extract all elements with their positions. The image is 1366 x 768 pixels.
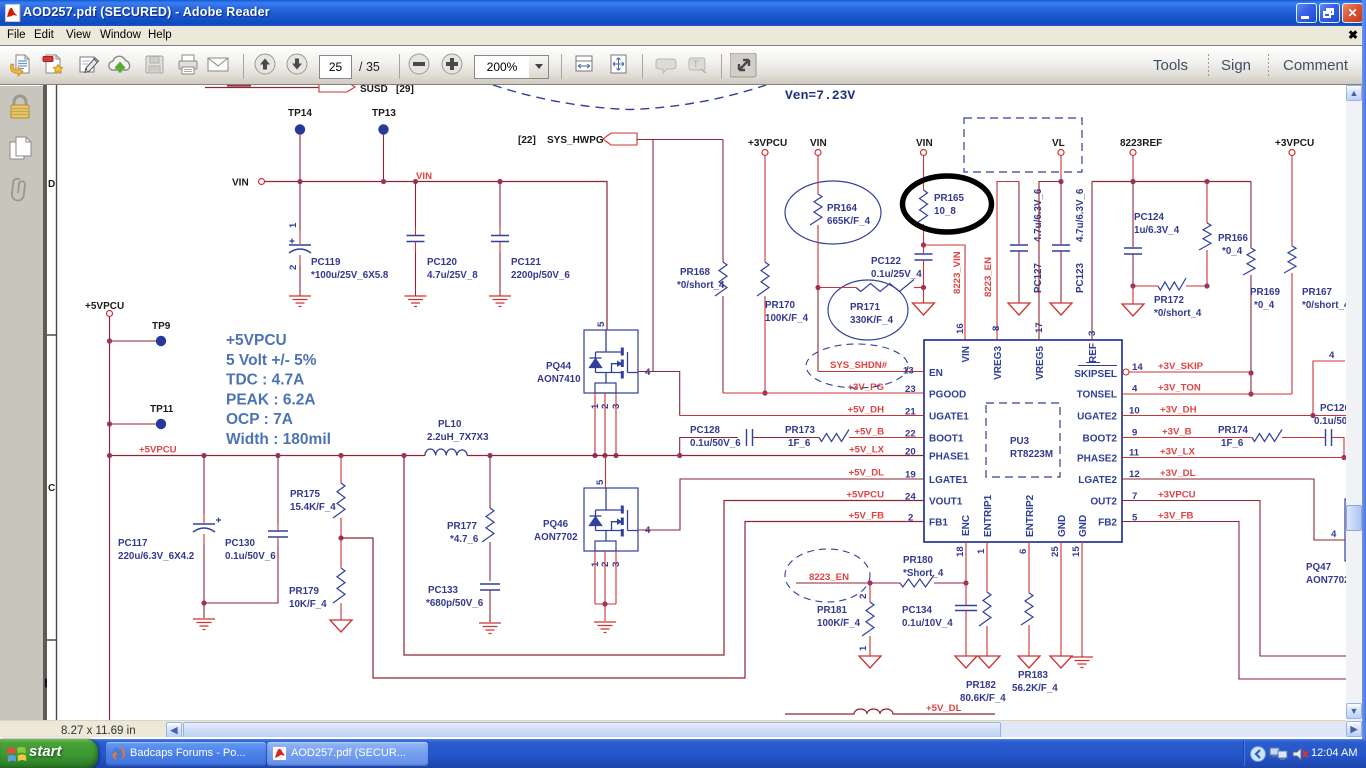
svg-text:1: 1 — [976, 548, 987, 554]
ground pin25 — [1050, 656, 1072, 668]
svg-text:PC121: PC121 — [511, 257, 542, 268]
toolbar icon page up — [286, 53, 312, 84]
toolbar icon sign pen — [108, 53, 134, 84]
dashed annotation arc — [493, 85, 766, 110]
svg-text:*4.7_6: *4.7_6 — [450, 534, 479, 545]
svg-text:UGATE1: UGATE1 — [929, 412, 969, 423]
svg-text:5 Volt +/- 5%: 5 Volt +/- 5% — [226, 352, 317, 369]
junction — [297, 179, 302, 184]
transistor PQ47 — [1345, 499, 1366, 561]
resistor PR177 — [489, 456, 491, 509]
wire VREG5 to VL — [1039, 182, 1061, 341]
svg-text:4: 4 — [1331, 529, 1337, 540]
junction — [921, 285, 926, 290]
ground PC124 — [1122, 304, 1144, 316]
clipped net label above toolbar — [227, 85, 251, 87]
junction — [497, 179, 502, 184]
wire +3V_FB route — [1122, 522, 1366, 680]
dashed ellipse SYS_SHDN — [806, 344, 908, 388]
svg-text:*0/short_4: *0/short_4 — [1302, 300, 1350, 311]
wire PC128 to PR173 — [753, 437, 819, 439]
wire +5V_LX node to PHASE1 — [467, 455, 924, 457]
wire PQ46 drain — [605, 456, 607, 489]
wire TP13 — [383, 134, 385, 182]
svg-text:T: T — [693, 59, 699, 69]
resistor PR165 — [923, 156, 925, 191]
svg-text:PHASE1: PHASE1 — [929, 452, 969, 463]
wire +5VPCU rail — [110, 455, 426, 457]
svg-text:PR179: PR179 — [289, 586, 320, 597]
capacitor PC130 — [277, 456, 279, 524]
svg-text:OCP : 7A: OCP : 7A — [226, 411, 293, 428]
svg-text:+5VPCU: +5VPCU — [226, 332, 287, 349]
wire VIN rail to PQ44 drain — [265, 182, 608, 331]
wire VL stub — [1060, 156, 1062, 182]
svg-text:GND: GND — [1057, 515, 1068, 537]
zoom box — [474, 55, 530, 79]
svg-text:2: 2 — [908, 513, 913, 524]
svg-text:PC128: PC128 — [690, 425, 721, 436]
ground PQ46 — [594, 622, 616, 633]
junction — [107, 421, 112, 426]
svg-text:4: 4 — [1132, 384, 1138, 395]
svg-text:+5V_B: +5V_B — [854, 427, 884, 438]
svg-text:[22]: [22] — [518, 135, 536, 146]
svg-text:25: 25 — [1050, 546, 1061, 557]
junction — [1058, 179, 1063, 184]
svg-text:100K/F_4: 100K/F_4 — [765, 313, 809, 324]
junction — [1341, 455, 1346, 460]
svg-text:VIN: VIN — [961, 346, 972, 363]
svg-text:VL: VL — [1052, 138, 1065, 149]
wire +5VPCU to VOUT1 — [404, 456, 924, 656]
vertical scrollbar — [1346, 85, 1362, 720]
svg-text:FB2: FB2 — [1098, 518, 1117, 529]
wire SUSD net — [205, 87, 319, 89]
svg-text:+5VPCU: +5VPCU — [846, 490, 884, 501]
svg-text:VREG3: VREG3 — [993, 346, 1004, 380]
wire +5V_DL bottom — [785, 709, 995, 714]
svg-text:+3VPCU: +3VPCU — [748, 138, 787, 149]
ground PC127 — [1008, 303, 1030, 315]
svg-text:PC123: PC123 — [1075, 262, 1086, 293]
svg-text:0.1u/25V_4: 0.1u/25V_4 — [871, 269, 922, 280]
svg-text:PR177: PR177 — [447, 521, 478, 532]
svg-text:+3V_DH: +3V_DH — [1160, 405, 1197, 416]
junction — [1248, 370, 1253, 375]
junction — [762, 390, 767, 395]
capacitor PC127 — [1018, 182, 1020, 245]
junction — [1310, 413, 1315, 418]
svg-text:RT8223M: RT8223M — [1010, 449, 1053, 460]
wire PQ46 gate to LGATE1 row — [638, 479, 924, 530]
svg-text:15.4K/F_4: 15.4K/F_4 — [290, 502, 336, 513]
svg-text:VOUT1: VOUT1 — [929, 497, 963, 508]
IC PU3 RT8223M — [924, 340, 1122, 542]
ground PC119 — [289, 296, 311, 307]
wire PQ44 gate to UGATE1 row — [638, 372, 680, 416]
svg-text:PC120: PC120 — [427, 257, 458, 268]
resistor PR179 — [340, 538, 342, 568]
svg-text:1: 1 — [858, 645, 869, 651]
resistor PR173 — [819, 430, 849, 442]
capacitor PC128 — [747, 429, 753, 446]
svg-text:14: 14 — [1132, 362, 1143, 373]
capacitor PC126 — [1326, 429, 1332, 446]
svg-text:PQ44: PQ44 — [546, 361, 572, 372]
ellipse around PR171 — [828, 280, 908, 340]
svg-text:5: 5 — [596, 321, 607, 327]
svg-text:2: 2 — [858, 594, 869, 599]
junction — [107, 338, 112, 343]
page number box — [319, 55, 352, 79]
svg-text:SUSD: SUSD — [360, 85, 388, 95]
svg-text:3: 3 — [1087, 331, 1098, 336]
svg-text:PGOOD: PGOOD — [929, 390, 966, 401]
junction — [338, 453, 343, 458]
svg-text:1F_6: 1F_6 — [1221, 438, 1244, 449]
svg-text:1: 1 — [288, 222, 299, 228]
junction — [1130, 283, 1135, 288]
svg-text:PR182: PR182 — [966, 680, 997, 691]
svg-text:+3V_DL: +3V_DL — [1160, 468, 1196, 479]
svg-text:0.1u/10V_4: 0.1u/10V_4 — [902, 618, 953, 629]
node VL — [1052, 138, 1065, 156]
junction — [413, 179, 418, 184]
svg-text:LGATE1: LGATE1 — [929, 475, 968, 486]
ground PC122 — [913, 303, 935, 315]
svg-text:8223_VIN: 8223_VIN — [952, 251, 963, 294]
ground PC123 — [1050, 303, 1072, 315]
svg-text:80.6K/F_4: 80.6K/F_4 — [960, 693, 1006, 704]
resistor PR169 — [1250, 182, 1252, 249]
resistor PR172 — [1133, 285, 1158, 287]
resistor PR180 — [900, 575, 934, 587]
junction — [487, 453, 492, 458]
svg-text:PC134: PC134 — [902, 605, 933, 616]
resistor PR171 — [818, 287, 856, 289]
wire PR180 to ENC — [934, 582, 966, 584]
junction — [867, 580, 872, 585]
resistor PR183 — [1021, 593, 1033, 625]
svg-text:+5V_LX: +5V_LX — [849, 445, 885, 456]
svg-text:17: 17 — [1034, 322, 1045, 333]
svg-text:PR172: PR172 — [1154, 295, 1185, 306]
toolbar icon print — [205, 53, 231, 84]
wire 8223REF stub — [1132, 156, 1134, 182]
svg-text:PC119: PC119 — [311, 257, 341, 268]
ground PR179 — [330, 620, 352, 632]
wire REF column — [1091, 182, 1093, 341]
svg-text:+3V_FB: +3V_FB — [1158, 511, 1194, 522]
wire PQ46 source pins — [595, 551, 616, 604]
wire to SYS_SHDN row — [817, 288, 819, 372]
wire TP9 — [110, 340, 157, 342]
wire GND pin 15 — [1081, 542, 1083, 657]
svg-text:TP11: TP11 — [150, 404, 174, 415]
svg-text:*0_4: *0_4 — [1254, 300, 1275, 311]
wire REF rail — [1092, 181, 1251, 183]
junction — [201, 453, 206, 458]
svg-text:REF: REF — [1088, 343, 1099, 363]
resistor PR168 — [722, 140, 724, 263]
resistor PR164 — [817, 156, 819, 195]
svg-text:ENC: ENC — [961, 515, 972, 536]
svg-text:PR181: PR181 — [817, 605, 848, 616]
svg-text:SYS_HWPG: SYS_HWPG — [547, 135, 604, 146]
svg-text:10: 10 — [1129, 406, 1140, 417]
wire +3V_TON row — [1122, 393, 1292, 395]
node VIN mid — [810, 138, 827, 156]
wire PC126 down — [1332, 438, 1344, 458]
svg-text:PEAK : 6.2A: PEAK : 6.2A — [226, 391, 316, 408]
svg-text:+5VPCU: +5VPCU — [139, 445, 177, 456]
wire ENTRIP1 pin 1 — [986, 542, 988, 592]
wire PQ46 to ground — [604, 604, 606, 621]
menu bar — [0, 26, 1366, 46]
wire LX to PC128 — [680, 438, 738, 456]
junction — [107, 453, 112, 458]
svg-text:8223_EN: 8223_EN — [809, 572, 849, 583]
svg-text:TP13: TP13 — [372, 108, 396, 119]
junction — [338, 535, 343, 540]
svg-text:PR175: PR175 — [290, 489, 321, 500]
wire PR173 to BOOT1 — [849, 437, 924, 439]
resistor PR181 — [869, 583, 871, 602]
svg-text:19: 19 — [905, 470, 916, 481]
svg-text:SYS_SHDN#: SYS_SHDN# — [830, 360, 888, 371]
junction — [677, 453, 682, 458]
svg-text:24: 24 — [905, 492, 916, 503]
svg-text:TP14: TP14 — [288, 108, 312, 119]
ground PC120 — [405, 296, 427, 307]
svg-text:12: 12 — [1129, 469, 1140, 480]
svg-text:4.7u/25V_8: 4.7u/25V_8 — [427, 270, 478, 281]
node +3VPCU left — [748, 138, 787, 156]
junction — [275, 453, 280, 458]
junction — [602, 601, 607, 606]
svg-text:BOOT2: BOOT2 — [1083, 434, 1118, 445]
wire +3V_PG row to PGOOD — [723, 392, 924, 394]
svg-text:VIN: VIN — [416, 171, 432, 182]
svg-text:*100u/25V_6X5.8: *100u/25V_6X5.8 — [311, 270, 389, 281]
svg-text:2200p/50V_6: 2200p/50V_6 — [511, 270, 570, 281]
wire GND pin 25 — [1060, 542, 1062, 656]
node VIN right — [916, 138, 933, 156]
wire SYS_HWPG — [637, 139, 723, 141]
wire +3V_DH row — [1122, 361, 1346, 416]
svg-text:OUT2: OUT2 — [1090, 497, 1117, 508]
junction — [381, 179, 386, 184]
junction — [613, 453, 618, 458]
dashed ellipse 8223_EN — [785, 549, 870, 602]
svg-text:PR165: PR165 — [934, 193, 965, 204]
svg-text:+3V_B: +3V_B — [1162, 427, 1192, 438]
svg-text:+3V_LX: +3V_LX — [1160, 447, 1196, 458]
ellipse around PR164 — [785, 181, 881, 244]
svg-text:PC124: PC124 — [1134, 212, 1165, 223]
svg-text:4: 4 — [645, 367, 651, 378]
paperclip icon — [6, 176, 32, 204]
wire +3V_DL row to PQ47 — [1122, 479, 1345, 540]
svg-text:VIN: VIN — [810, 138, 827, 149]
capacitor PC121 — [499, 182, 501, 228]
svg-text:TONSEL: TONSEL — [1077, 390, 1117, 401]
window title bar — [0, 0, 1366, 26]
svg-text:PR167: PR167 — [1302, 287, 1333, 298]
svg-text:20: 20 — [905, 447, 916, 458]
junction — [401, 453, 406, 458]
svg-text:+3VPCU: +3VPCU — [1158, 490, 1196, 501]
wire +3V_SKIP row — [1129, 371, 1251, 373]
svg-text:8: 8 — [991, 325, 1002, 331]
svg-text:AON7702: AON7702 — [1306, 575, 1350, 586]
inductor PL10 — [425, 449, 467, 456]
document background — [48, 85, 1346, 720]
svg-text:*0_4: *0_4 — [1222, 246, 1243, 257]
svg-text:*0/short_4: *0/short_4 — [1154, 308, 1202, 319]
capacitor PC117 — [203, 456, 205, 515]
svg-text:0.1u/50V_6: 0.1u/50V_6 — [690, 438, 741, 449]
ground PR182 — [978, 656, 1000, 668]
svg-text:*0/short_4: *0/short_4 — [677, 280, 725, 291]
svg-text:330K/F_4: 330K/F_4 — [850, 315, 894, 326]
svg-text:4.7u/6.3V_6: 4.7u/6.3V_6 — [1075, 188, 1086, 242]
svg-text:TP9: TP9 — [152, 321, 171, 332]
svg-text:Ven=7.23V: Ven=7.23V — [785, 88, 855, 103]
node VIN — [232, 178, 265, 189]
toolbar icon fit page — [642, 54, 643, 79]
svg-text:PC122: PC122 — [871, 256, 902, 267]
resistor PR167 — [1291, 156, 1293, 247]
svg-text:PR164: PR164 — [827, 203, 858, 214]
toolbar icon save (disabled) — [175, 53, 201, 84]
svg-text:BOOT1: BOOT1 — [929, 434, 964, 445]
svg-text:+5V_DL: +5V_DL — [849, 468, 885, 479]
svg-text:*Short_4: *Short_4 — [903, 568, 944, 579]
node +5VPCU — [85, 301, 124, 317]
capacitor PC124 — [1132, 182, 1134, 248]
ground PC134 — [955, 656, 977, 668]
svg-text:18: 18 — [955, 546, 966, 557]
svg-text:1u/6.3V_4: 1u/6.3V_4 — [1134, 225, 1180, 236]
wire feedback divider to FB1 — [341, 522, 924, 679]
wire PR174 to PC126 — [1282, 437, 1325, 439]
transistor PQ46 — [584, 488, 638, 551]
svg-text:10K/F_4: 10K/F_4 — [289, 599, 327, 610]
svg-text:PC130: PC130 — [225, 538, 256, 549]
svg-text:Width : 180mil: Width : 180mil — [226, 431, 331, 448]
junction — [1130, 179, 1135, 184]
svg-text:TDC : 4.7A: TDC : 4.7A — [226, 372, 304, 389]
wire SYS_SHDN# to EN — [818, 371, 924, 373]
junction — [201, 600, 206, 605]
svg-text:5: 5 — [595, 479, 606, 485]
svg-text:15: 15 — [1071, 546, 1082, 557]
svg-text:GND: GND — [1078, 515, 1089, 537]
junction — [921, 242, 926, 247]
horizontal scroll / status row — [0, 720, 1346, 737]
svg-text:AON7410: AON7410 — [537, 374, 581, 385]
resistor PR174 — [1252, 430, 1282, 442]
svg-text:PR174: PR174 — [1218, 425, 1249, 436]
capacitor PC134 — [965, 583, 967, 605]
svg-text:AON7702: AON7702 — [534, 532, 578, 543]
black annotation circle — [903, 176, 992, 232]
svg-text:9: 9 — [1132, 428, 1137, 439]
svg-text:PR166: PR166 — [1218, 233, 1249, 244]
svg-text:LGATE2: LGATE2 — [1078, 475, 1117, 486]
svg-text:PQ46: PQ46 — [543, 519, 569, 530]
svg-text:PC133: PC133 — [428, 585, 459, 596]
toolbar icon typewriter (disabled) — [721, 54, 722, 79]
svg-text:11: 11 — [1129, 448, 1140, 459]
pages icon — [8, 134, 34, 162]
ground PR183 — [1018, 656, 1040, 668]
svg-text:PC117: PC117 — [118, 538, 148, 549]
svg-text:+3V_SKIP: +3V_SKIP — [1158, 361, 1204, 372]
svg-text:8223REF: 8223REF — [1120, 138, 1162, 149]
capacitor PC119 — [299, 182, 301, 231]
ground PC133 — [479, 623, 501, 634]
svg-text:16: 16 — [955, 323, 966, 334]
svg-text:4: 4 — [1329, 350, 1335, 361]
svg-text:PU3: PU3 — [1010, 436, 1030, 447]
svg-text:+3V_TON: +3V_TON — [1158, 383, 1201, 394]
wire TP14 — [299, 134, 301, 182]
svg-text:2: 2 — [288, 265, 299, 270]
transistor PQ44 — [584, 330, 638, 393]
wire VREG3 to PC127 — [997, 182, 1019, 341]
svg-text:+3VPCU: +3VPCU — [1275, 138, 1314, 149]
sheet frame border — [47, 85, 57, 720]
junction — [602, 453, 607, 458]
svg-text:+5V_DL: +5V_DL — [926, 703, 962, 714]
svg-text:2.2uH_7X7X3: 2.2uH_7X7X3 — [427, 432, 489, 443]
wire TP11 — [110, 423, 157, 425]
wire 8223_EN — [796, 582, 900, 584]
svg-text:220u/6.3V_6X4.2: 220u/6.3V_6X4.2 — [118, 551, 195, 562]
capacitor PC120 — [415, 182, 417, 228]
svg-text:PQ47: PQ47 — [1306, 562, 1332, 573]
node 8223REF — [1120, 138, 1162, 156]
toolbar icon open — [41, 53, 67, 84]
wire +3VPCU route — [1122, 501, 1366, 657]
svg-text:VIN: VIN — [232, 178, 249, 189]
svg-text:C: C — [48, 483, 55, 494]
svg-text:PHASE2: PHASE2 — [1077, 454, 1117, 465]
toolbar icon email — [243, 54, 244, 79]
junction — [592, 453, 597, 458]
capacitor PC122 — [923, 245, 925, 253]
ground PC117 — [193, 619, 215, 630]
ground pin15 — [1071, 657, 1093, 668]
svg-text:22: 22 — [905, 429, 916, 440]
svg-text:PR169: PR169 — [1250, 287, 1281, 298]
wire +5V_DH row to UGATE1 — [680, 415, 924, 417]
svg-text:[29]: [29] — [396, 85, 414, 95]
svg-text:56.2K/F_4: 56.2K/F_4 — [1012, 683, 1058, 694]
junction — [963, 580, 968, 585]
wire 8223_VIN to pin 16 — [924, 245, 966, 340]
toolbar icon fullscreen — [1153, 57, 1188, 74]
wire +3V_LX row — [1122, 457, 1352, 459]
svg-text:1F_6: 1F_6 — [788, 438, 811, 449]
svg-text:100K/F_4: 100K/F_4 — [817, 618, 861, 629]
svg-text:8223_EN: 8223_EN — [983, 257, 994, 297]
toolbar icon cloud upload — [142, 53, 168, 84]
svg-text:SKIPSEL: SKIPSEL — [1074, 369, 1117, 380]
